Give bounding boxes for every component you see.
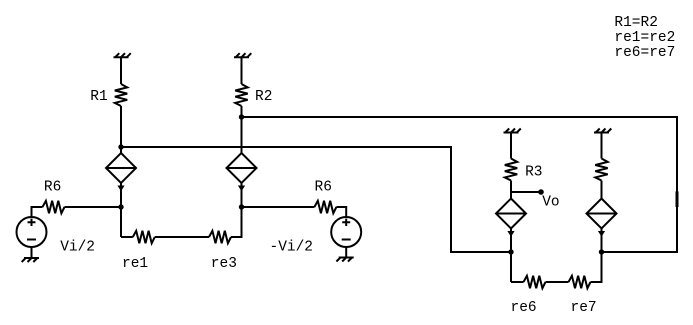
wire U4 to node C4	[601, 229, 603, 253]
node A junction dot	[118, 144, 123, 149]
voltage source V1	[17, 217, 47, 247]
current arrow of U4	[598, 231, 605, 237]
wire rail to re1	[121, 236, 133, 238]
wire V1 to ground G5	[31, 247, 33, 258]
wire G3 to R3	[510, 133, 512, 159]
resistor R1	[115, 84, 127, 106]
resistor R6 (right)	[314, 201, 336, 213]
ground G2 (top of R2 branch)	[234, 53, 251, 57]
ground G1 (top of R1 branch)	[114, 53, 131, 57]
node C3 junction dot	[508, 249, 513, 254]
ground G6 (below V2)	[336, 258, 353, 262]
resistor R2	[235, 84, 247, 106]
svg-text:R2: R2	[255, 89, 272, 105]
node C1 junction dot	[118, 204, 123, 209]
wire re3 up to node C2	[231, 207, 242, 237]
resistor re6	[524, 276, 546, 288]
ground G3 (top of R3 branch)	[504, 129, 521, 133]
dependent source U1 (diamond)	[106, 153, 136, 183]
svg-text:Vo: Vo	[542, 195, 559, 211]
svg-text:R1: R1	[90, 89, 107, 105]
wire G1 to R1	[120, 57, 122, 84]
wire node C1 to resistor R6 left	[65, 206, 122, 208]
resistor R6 (left)	[43, 201, 65, 213]
svg-text:re6=re7: re6=re7	[614, 45, 675, 61]
wire node A to source U1	[120, 147, 122, 153]
wire U1 to node C1	[120, 183, 122, 207]
wire overlap segment on right riser	[676, 192, 679, 208]
wire G2 to R2	[241, 57, 243, 84]
resistor re3	[209, 231, 231, 243]
wire resistor to source U4	[601, 181, 603, 199]
wire V2 to ground G6	[345, 247, 347, 258]
ground G4 (top of right branch)	[594, 129, 611, 133]
node C4 junction dot	[599, 249, 604, 254]
voltage source V2	[331, 217, 361, 247]
current arrow of U3	[507, 231, 514, 237]
resistor R3	[505, 159, 517, 181]
svg-text:re6: re6	[511, 300, 537, 316]
svg-text:re7: re7	[571, 300, 597, 316]
svg-text:re1: re1	[122, 256, 148, 272]
current arrow of U2	[238, 186, 245, 192]
resistor (unlabelled, right branch)	[595, 159, 607, 181]
wire U2 to node C2	[241, 183, 243, 207]
node Vo dot	[538, 189, 544, 195]
svg-text:R6: R6	[315, 180, 332, 196]
wire node C2 to resistor R6 right	[242, 206, 315, 208]
wire node C3 down to right rail	[510, 252, 512, 282]
resistor re1	[133, 231, 155, 243]
wire R6 to source V1	[32, 207, 43, 217]
wire G4 to resistor	[601, 133, 603, 159]
dependent source U2 (diamond)	[227, 153, 257, 183]
node B junction dot	[239, 114, 244, 119]
wire node B to source U2	[241, 117, 243, 153]
wire re6 to re7	[546, 281, 569, 283]
wire R2 to node B	[241, 106, 243, 117]
wire U3 to node C3	[510, 229, 512, 253]
svg-text:re3: re3	[211, 256, 237, 272]
ground G5 (below V1)	[22, 258, 39, 262]
svg-text:re1=re2: re1=re2	[614, 30, 675, 46]
wire rail to re6	[511, 281, 524, 283]
svg-text:R6: R6	[44, 180, 61, 196]
wire node B to far right elbow	[242, 117, 678, 252]
resistor re7	[569, 276, 591, 288]
wire R6 to source V2	[336, 207, 346, 217]
wire R3 to source U3	[510, 181, 512, 199]
wire re7 up to node C4	[591, 252, 602, 282]
wire R1 to node A	[120, 106, 122, 147]
dependent source U3 (diamond)	[496, 199, 526, 229]
svg-text:R1=R2: R1=R2	[614, 15, 658, 31]
wire re1 to re3	[155, 236, 209, 238]
wire Vo stub	[511, 191, 539, 193]
svg-text:Vi/2: Vi/2	[60, 240, 95, 256]
wire node C1 down to left rail	[120, 207, 122, 237]
node C2 junction dot	[239, 204, 244, 209]
svg-text:-Vi/2: -Vi/2	[270, 240, 314, 256]
wire node A to right network elbow	[121, 147, 511, 252]
svg-text:R3: R3	[525, 165, 542, 181]
dependent source U4 (diamond)	[587, 199, 617, 229]
current arrow of U1	[117, 186, 124, 192]
